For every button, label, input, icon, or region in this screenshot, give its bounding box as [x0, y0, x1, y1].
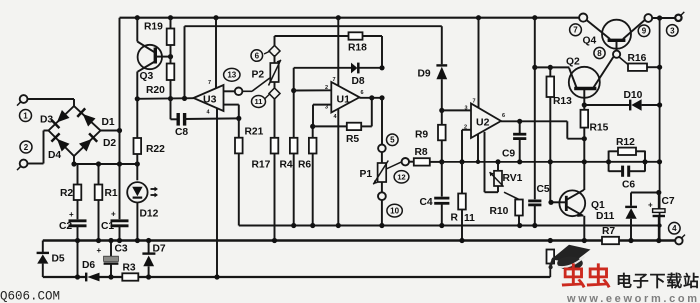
wire bottom bus y277 — [43, 276, 86, 278]
diode D10 — [584, 104, 629, 106]
svg-text:D7: D7 — [153, 244, 166, 255]
svg-text:+: + — [97, 246, 102, 255]
resistor R8 — [409, 161, 414, 163]
diode D1 (top-right arm) — [83, 114, 96, 127]
transistor Q3 — [138, 45, 162, 69]
parallel R12 / C6 network — [608, 151, 610, 172]
potentiometer P1 — [378, 163, 387, 182]
svg-text:3: 3 — [465, 106, 468, 112]
wire P1 wiper to terminal 12 — [386, 162, 402, 169]
potentiometer P2 — [274, 36, 276, 47]
wire U3 inverting pin feedback — [224, 104, 239, 106]
svg-text:R21: R21 — [245, 127, 264, 138]
wire D8 branch down to U1 +input — [293, 68, 295, 91]
svg-text:C5: C5 — [537, 184, 550, 195]
terminal 3 — [675, 15, 681, 21]
op-amp U2 — [478, 18, 480, 108]
capacitor C2 electrolytic — [69, 219, 87, 222]
resistor R16 — [619, 57, 628, 64]
svg-text:D11: D11 — [596, 211, 615, 222]
resistor R14 (between buses) — [547, 250, 555, 264]
terminal 11 — [265, 94, 271, 100]
resistor R5 feedback — [347, 123, 361, 130]
terminal 6 — [264, 51, 270, 54]
wire from terminal 1 to bridge top — [28, 98, 75, 100]
resistor R12 — [609, 150, 618, 152]
svg-text:R4: R4 — [280, 160, 293, 171]
wire ground bus y240 — [43, 239, 676, 241]
resistor R3 (in bottom bus) — [122, 273, 138, 280]
transistor Q1 — [559, 190, 585, 216]
svg-text:Q2: Q2 — [566, 57, 580, 68]
svg-text:Q1: Q1 — [591, 200, 605, 211]
capacitor C9 — [519, 121, 521, 133]
terminal 13 — [235, 88, 243, 96]
svg-text:9: 9 — [642, 27, 647, 36]
wire P2 wiper to test point 13 — [252, 78, 270, 91]
svg-text:R12: R12 — [616, 137, 635, 148]
diode D5 — [42, 241, 44, 254]
svg-text:+: + — [111, 210, 116, 219]
svg-text:C7: C7 — [662, 196, 675, 207]
svg-text:D1: D1 — [102, 117, 115, 128]
svg-text:C2: C2 — [59, 221, 72, 232]
terminal 4 output — [675, 237, 682, 244]
resistor R20 — [167, 64, 175, 81]
resistor R6 — [312, 126, 314, 137]
svg-text:R18: R18 — [348, 43, 367, 54]
trimmer RV1 — [497, 162, 499, 171]
svg-text:C9: C9 — [502, 149, 515, 160]
svg-text:C4: C4 — [420, 197, 433, 208]
svg-text:Q4: Q4 — [583, 36, 597, 47]
resistor R9 — [441, 110, 443, 124]
svg-text:7: 7 — [333, 77, 336, 83]
svg-text:D4: D4 — [48, 150, 61, 161]
resistor R13 — [549, 67, 551, 76]
bridge rectifier diamond — [49, 106, 101, 156]
wire supply to Q2 emitter — [535, 66, 570, 68]
svg-text:R9: R9 — [415, 130, 428, 141]
wire U3 pin to test point 13 — [224, 90, 235, 92]
svg-text:+: + — [69, 210, 74, 219]
svg-text:R16: R16 — [628, 53, 647, 64]
diode D6 (in bottom bus) — [85, 273, 87, 282]
svg-text:R3: R3 — [123, 263, 136, 274]
svg-text:R2: R2 — [60, 188, 73, 199]
svg-text:+: + — [648, 201, 653, 210]
svg-text:6: 6 — [255, 51, 260, 60]
svg-text:Q606.COM: Q606.COM — [0, 290, 60, 303]
svg-text:7: 7 — [573, 26, 578, 35]
wire from terminal 2 to bridge left — [28, 163, 44, 165]
svg-text:D6: D6 — [82, 260, 95, 271]
capacitor C7 electrolytic — [658, 193, 660, 209]
svg-text:RV1: RV1 — [503, 173, 523, 184]
svg-text:7: 7 — [208, 80, 211, 86]
capacitor C6 — [609, 170, 622, 172]
wire bridge right vertex to C1 column — [101, 130, 120, 132]
LED D12 — [127, 182, 147, 202]
wire bus2 (second top rail) — [185, 25, 442, 27]
svg-text:D3: D3 — [40, 115, 53, 126]
resistor R22 — [136, 18, 138, 42]
wire right column from bus1 — [659, 18, 661, 241]
svg-text:12: 12 — [397, 173, 405, 182]
node junction dots on bus1 — [135, 15, 140, 20]
svg-text:10: 10 — [390, 207, 399, 216]
resistor R1 — [98, 164, 100, 185]
wire U3 output net y99 — [137, 97, 193, 100]
svg-text:电子下载站: 电子下载站 — [616, 272, 699, 291]
svg-text:R20: R20 — [146, 85, 165, 96]
svg-text:P1: P1 — [360, 169, 373, 180]
terminal 10 — [381, 182, 383, 192]
svg-text:11: 11 — [255, 97, 263, 106]
svg-text:P2: P2 — [252, 70, 265, 81]
wire top supply bus1 — [120, 17, 580, 19]
svg-text:R10: R10 — [490, 206, 509, 217]
svg-text:R22: R22 — [146, 144, 165, 155]
capacitor C8 — [170, 99, 172, 120]
svg-text:www.eeworm.com: www.eeworm.com — [566, 293, 697, 303]
op-amp U3 (points left) — [215, 18, 217, 89]
svg-text:2: 2 — [24, 143, 29, 152]
resistor R18 — [275, 35, 349, 37]
terminal 7 — [579, 14, 587, 22]
terminal 1 input — [20, 95, 28, 103]
svg-text:R15: R15 — [590, 123, 609, 134]
wire U2 inverting input — [462, 129, 471, 131]
resistor R15 — [583, 105, 585, 110]
wire raw supply node y164 — [74, 163, 137, 165]
terminal 8 (Q4 base) — [613, 51, 620, 58]
svg-text:Q3: Q3 — [140, 71, 154, 82]
capacitor C4 — [441, 162, 443, 197]
watermark eeworm logo cap — [551, 245, 591, 263]
svg-text:R5: R5 — [346, 134, 359, 145]
terminal 5 — [378, 145, 386, 153]
svg-text:D5: D5 — [52, 254, 65, 265]
wire mid rail y226 — [239, 225, 660, 227]
diode D3 (top-left arm) — [57, 110, 70, 123]
wire U2 output — [501, 120, 567, 122]
resistor R21 — [238, 118, 240, 137]
svg-text:R7: R7 — [602, 226, 615, 237]
capacitor C3 electrolytic — [110, 241, 112, 257]
wire bridge bottom to raw node — [73, 156, 75, 164]
svg-text:5: 5 — [390, 136, 395, 145]
capacitor C5 — [534, 18, 536, 200]
svg-text:虫虫: 虫虫 — [561, 263, 611, 291]
svg-text:D12: D12 — [140, 208, 159, 219]
svg-text:7: 7 — [473, 99, 476, 105]
svg-text:R: R — [451, 213, 459, 224]
wire mid rail y162 — [442, 161, 660, 163]
terminal 9 — [644, 14, 652, 22]
wire U1 output — [360, 97, 383, 99]
diode D2 (bottom-right arm) — [79, 139, 92, 152]
diode D8 — [294, 67, 351, 69]
svg-text:11: 11 — [464, 213, 475, 224]
resistor R19 — [170, 18, 172, 29]
svg-text:C8: C8 — [175, 127, 188, 138]
svg-text:C3: C3 — [115, 244, 128, 255]
svg-text:R19: R19 — [144, 22, 163, 33]
svg-text:R1: R1 — [105, 188, 118, 199]
svg-text:U2: U2 — [476, 117, 490, 129]
svg-text:U1: U1 — [337, 94, 351, 106]
diode D9 — [441, 26, 443, 64]
svg-text:C1: C1 — [101, 221, 114, 232]
svg-text:4: 4 — [672, 224, 677, 233]
transistor Q4 — [602, 20, 631, 49]
resistor R2 — [77, 164, 79, 185]
capacitor C1 electrolytic — [119, 18, 121, 220]
diode D4 (bottom-left arm) — [57, 139, 70, 152]
svg-text:D2: D2 — [103, 138, 116, 149]
svg-text:6: 6 — [502, 113, 505, 119]
svg-text:6: 6 — [361, 90, 364, 96]
wire U2 offset pins — [477, 134, 479, 162]
wire U1 inverting input — [313, 104, 331, 106]
svg-text:1: 1 — [23, 111, 28, 120]
svg-text:D9: D9 — [418, 69, 431, 80]
svg-text:R6: R6 — [298, 160, 311, 171]
svg-text:13: 13 — [227, 71, 236, 80]
svg-text:2: 2 — [325, 85, 328, 91]
transistor Q2 — [569, 67, 600, 98]
resistor R17 — [274, 98, 276, 138]
wire output column to P1 — [381, 98, 383, 145]
svg-text:R8: R8 — [415, 147, 428, 158]
svg-text:R17: R17 — [252, 160, 271, 171]
svg-text:8: 8 — [597, 49, 602, 58]
diode D7 — [148, 241, 150, 254]
terminal 2 input — [20, 160, 28, 168]
svg-text:3: 3 — [670, 26, 675, 35]
resistor R4 — [293, 91, 295, 138]
terminal 12 — [402, 158, 409, 165]
svg-text:R13: R13 — [553, 96, 572, 107]
resistor R7 (in ground bus) — [602, 237, 619, 244]
svg-text:D10: D10 — [624, 90, 643, 101]
resistor R10 — [504, 192, 519, 199]
resistor R11 — [461, 162, 463, 194]
svg-text:U3: U3 — [203, 94, 217, 106]
diode D11 — [630, 193, 632, 206]
op-amp U1 — [337, 18, 339, 86]
svg-text:D8: D8 — [352, 76, 365, 87]
svg-text:C6: C6 — [622, 180, 635, 191]
